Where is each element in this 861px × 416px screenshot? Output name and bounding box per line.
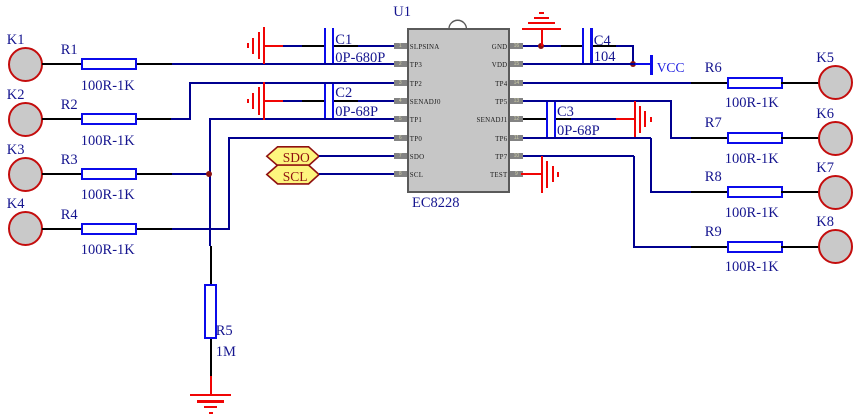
wire R8 row left	[650, 191, 691, 193]
label R1	[61, 43, 78, 58]
wire vertical R2-TP2	[189, 83, 191, 120]
pin label SDO	[410, 155, 425, 162]
power symbol VCC pin	[635, 63, 651, 65]
ground stem TEST	[521, 173, 541, 175]
wire K3 to R3	[42, 173, 81, 175]
wire gnd-C1 blue	[283, 45, 302, 47]
label K5	[816, 51, 834, 66]
wire vertical TP6-R8	[650, 138, 652, 193]
wire vertical R4-TP0	[228, 138, 230, 230]
capacitor C3	[546, 102, 548, 137]
wire TP6 row	[523, 137, 651, 139]
lead C3 right	[556, 118, 571, 120]
junction node TP1/R3/R5	[206, 171, 212, 177]
lead R2 right	[137, 118, 172, 120]
wire vertical TP5-R7	[670, 101, 672, 139]
value C1	[335, 51, 385, 66]
connector pad K5	[818, 65, 853, 100]
pin label SCL	[410, 173, 423, 180]
label R2	[61, 98, 78, 113]
lead C1 right	[334, 45, 358, 47]
wire gnd-C2 blue	[283, 100, 302, 102]
label K3	[7, 143, 25, 158]
connector pad K1	[8, 47, 43, 82]
label R8	[705, 170, 722, 185]
lead R4 right	[137, 228, 173, 230]
connector pad K8	[818, 229, 853, 264]
pin label GND	[492, 45, 508, 52]
junction node GND/ground	[538, 43, 544, 49]
label C2	[335, 86, 352, 101]
value R3	[81, 188, 135, 203]
lead C2 right	[334, 100, 358, 102]
lead C4 left	[561, 45, 584, 47]
wire net TP0 row	[228, 137, 394, 139]
pin 3 box (TP2)	[394, 80, 407, 86]
label EC8228	[412, 196, 460, 211]
wire C2 to pin4	[358, 100, 394, 102]
resistor R9	[727, 241, 783, 253]
value R2	[81, 134, 135, 149]
wire C3 to ground	[571, 118, 616, 120]
lead R7 right	[781, 137, 818, 139]
lead R8 left	[691, 191, 727, 193]
ground earth top	[522, 28, 560, 30]
pin label TP5	[495, 100, 507, 107]
pin label TP4	[495, 82, 507, 89]
value R4	[81, 243, 135, 258]
lead R5 top	[210, 246, 212, 284]
value R8	[725, 206, 779, 221]
pin 14 box (TP4)	[510, 80, 523, 86]
ground earth bottom	[190, 394, 231, 397]
wire VDD to VCC	[523, 63, 635, 65]
value C2	[335, 105, 378, 120]
label C4	[594, 34, 611, 49]
wire R4 to corner	[172, 228, 230, 230]
pin label TEST	[490, 173, 507, 180]
pin label SLPSINA	[410, 45, 440, 52]
pin 12 box (SENADJ1)	[510, 116, 523, 122]
wire R9 row left	[633, 246, 692, 248]
value R7	[725, 152, 779, 167]
pin 9 box (TEST)	[510, 171, 523, 177]
lead C2 left	[302, 100, 325, 102]
wire C1 to pin1	[358, 45, 394, 47]
wire TP5 row	[523, 100, 672, 102]
capacitor C4	[582, 28, 584, 63]
wire C4 to corner	[616, 45, 634, 47]
resistor R3	[81, 168, 137, 180]
pin 16 box (GND)	[510, 43, 523, 49]
lead R6 right	[781, 82, 818, 84]
lead C1 left	[302, 45, 325, 47]
junction node C4/VDD	[630, 61, 636, 67]
lead R8 right	[781, 191, 818, 193]
lead R9 left	[691, 246, 727, 248]
value R1	[81, 79, 135, 94]
wire net TP1 row	[209, 118, 395, 120]
label K7	[816, 161, 834, 176]
value C4	[594, 50, 616, 65]
pin label TP1	[410, 118, 422, 125]
pin 4 box (SENADJ0)	[394, 98, 407, 104]
lead R1 right	[137, 63, 173, 65]
label R7	[705, 116, 722, 131]
label U1	[393, 5, 411, 20]
wire K2 to R2	[42, 118, 81, 120]
pin label TP2	[410, 82, 422, 89]
ground right of C3	[634, 101, 636, 138]
resistor R5	[204, 284, 217, 339]
pin label TP7	[495, 155, 507, 162]
capacitor C2	[324, 84, 326, 119]
pin label SENADJ0	[410, 100, 441, 107]
lead R5 bottom	[210, 339, 212, 375]
label R4	[61, 208, 78, 223]
pin label VDD	[492, 63, 508, 70]
connector pad K2	[8, 102, 43, 137]
lead C3 left	[523, 118, 547, 120]
ground right of TEST	[541, 156, 543, 193]
lead C4 right	[593, 45, 616, 47]
wire net TP3 row	[172, 63, 394, 65]
pin label SENADJ1	[477, 118, 508, 125]
wire TP4 row	[523, 82, 691, 84]
label R9	[705, 225, 722, 240]
pin 11 box (TP6)	[510, 135, 523, 141]
label C1	[335, 33, 352, 48]
resistor R1	[81, 58, 137, 70]
pin 7 box (SDO)	[394, 153, 407, 159]
pin 10 box (TP7)	[510, 153, 523, 159]
wire K1 to R1	[42, 63, 81, 65]
resistor R4	[81, 223, 137, 235]
capacitor C1	[324, 28, 326, 63]
lead R6 left	[691, 82, 727, 84]
label VCC	[657, 61, 685, 75]
pin 13 box (TP5)	[510, 98, 523, 104]
resistor R6	[727, 77, 783, 89]
wire R3 to junction	[172, 173, 210, 175]
wire TP7 row	[523, 155, 634, 157]
pin label TP6	[495, 137, 507, 144]
lead R7 left	[691, 137, 727, 139]
value R5	[216, 345, 236, 360]
value R9	[725, 260, 779, 275]
label K4	[7, 197, 25, 212]
pin 6 box (TP0)	[394, 135, 407, 141]
pin label TP0	[410, 137, 422, 144]
wire vertical TP7-R9	[633, 156, 635, 248]
wire SCL to pin8	[319, 173, 394, 175]
connector pad K6	[818, 121, 853, 156]
pin 2 box (TP3)	[394, 61, 407, 67]
connector pad K4	[8, 211, 43, 246]
op-amp/IC U1 body	[407, 28, 510, 193]
wire K4 to R4	[42, 228, 81, 230]
label K8	[816, 215, 834, 230]
wire net TP2 row	[189, 82, 394, 84]
pin 5 box (TP1)	[394, 116, 407, 122]
wire vertical TP1-R5	[209, 119, 211, 245]
resistor R8	[727, 186, 783, 198]
ground stem R5	[210, 376, 212, 395]
label R6	[705, 61, 722, 76]
label R5	[216, 324, 233, 339]
pin 8 box (SCL)	[394, 171, 407, 177]
label K1	[7, 33, 25, 48]
wire R2 to corner	[171, 118, 190, 120]
connector pad K7	[818, 175, 853, 210]
IC notch	[448, 18, 468, 29]
resistor R7	[727, 132, 783, 144]
lead R3 right	[137, 173, 173, 175]
power symbol VCC bar	[650, 55, 653, 74]
pin label TP3	[410, 63, 422, 70]
pin 15 box (VDD)	[510, 61, 523, 67]
wire GND pin to C4	[523, 45, 561, 47]
ground left of C1	[263, 27, 265, 64]
ground stem top	[541, 28, 543, 46]
pin 1 box (SLPSINA)	[394, 43, 407, 49]
wire SDO to pin7	[319, 155, 394, 157]
connector pad K3	[8, 157, 43, 192]
value C3	[557, 124, 600, 139]
wire vertical C4-VDD	[632, 46, 634, 65]
label C3	[557, 105, 574, 120]
label K6	[816, 107, 834, 122]
label K2	[7, 88, 25, 103]
resistor R2	[81, 113, 137, 125]
value R6	[725, 96, 779, 111]
label R3	[61, 153, 78, 168]
ground left of C2	[263, 82, 265, 119]
lead R9 right	[781, 246, 818, 248]
wire R7 row left	[670, 137, 692, 139]
